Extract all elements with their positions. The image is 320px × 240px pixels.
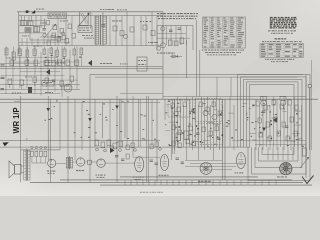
text: V7 label bbox=[96, 175, 106, 178]
wire: vertical w7 bbox=[186, 97, 188, 160]
wire: vertical w2 bbox=[171, 105, 173, 160]
paper mottle bbox=[15, 35, 320, 150]
RF section small parts bbox=[112, 21, 158, 43]
wire: vertical w37 bbox=[294, 97, 296, 147]
tube V5 rectifier bbox=[48, 159, 56, 167]
wire: vertical v17 bbox=[138, 99, 140, 147]
wire: vertical w18 bbox=[219, 99, 221, 150]
node A bbox=[43, 34, 46, 37]
wire: mixer link bbox=[30, 33, 62, 46]
wire: bottom rail 4 bbox=[100, 184, 312, 186]
wire: HT rail upper a bbox=[0, 65, 163, 67]
resistor R15 bbox=[176, 133, 181, 141]
wire: vertical w34 bbox=[283, 97, 285, 150]
wire: vertical v18 bbox=[139, 99, 141, 147]
potentiometer P1 bbox=[300, 143, 309, 178]
tube V2 EF9 bbox=[160, 155, 168, 171]
wire: vertical w8 bbox=[189, 99, 191, 147]
wire: vertical w24 bbox=[171, 99, 173, 154]
wire: bottom rail 1 bbox=[120, 176, 258, 178]
IF transformer T3 (dashed box) bbox=[198, 124, 223, 145]
text: table footnote 3 bbox=[207, 53, 236, 56]
IF can windings W1 bbox=[95, 16, 99, 44]
left margin terminal marks bbox=[1, 65, 5, 90]
wire: top rail bbox=[17, 11, 163, 13]
wire: vertical v21 bbox=[151, 99, 153, 147]
IF transformer T2 (dashed box) bbox=[195, 99, 222, 122]
wire: vertical v16 bbox=[132, 96, 134, 157]
wire: vertical w20 bbox=[222, 99, 224, 180]
components band A bbox=[5, 47, 83, 67]
wire: junction rail bbox=[19, 25, 46, 27]
wire: vertical v8 bbox=[94, 99, 96, 147]
wire: vertical w36 bbox=[290, 105, 292, 150]
wire: vertical v1 bbox=[47, 96, 49, 160]
wire: drop x127 bbox=[126, 12, 128, 70]
wire: AF links bbox=[185, 161, 246, 170]
wire: vertical v2 bbox=[49, 99, 51, 182]
wire: vertical w29 bbox=[266, 99, 268, 147]
wire: bus y102 bbox=[0, 101, 160, 103]
label box oscillator bbox=[78, 26, 92, 33]
inset rail 2 bbox=[157, 37, 190, 39]
capacitor C1b bbox=[58, 37, 61, 38]
wire: drop x141 bbox=[140, 16, 142, 46]
pointer arrow blob bbox=[3, 142, 9, 146]
bottom mid small parts bbox=[110, 146, 129, 161]
IF can circles right bbox=[261, 96, 287, 105]
text: coil chart caption 2 bbox=[271, 32, 293, 35]
text: table footnote 1 bbox=[202, 49, 244, 52]
label box aerial terminals bbox=[48, 13, 67, 18]
wiring lattice left section bbox=[1, 46, 80, 97]
text: voltages heading bbox=[275, 38, 287, 39]
text: inset caption bbox=[157, 52, 175, 55]
wire: vertical w23 bbox=[233, 105, 235, 150]
text: misc specks TL bbox=[33, 21, 128, 65]
paper shading bottom-left bbox=[0, 115, 115, 196]
wire: vertical w16 bbox=[213, 99, 215, 160]
resistor bank R10-R13 bbox=[31, 146, 47, 163]
wire: bottom rail 3 bbox=[30, 181, 303, 183]
right section components bbox=[256, 100, 298, 141]
inset frame bbox=[157, 26, 193, 51]
wire: top section bottom rail bbox=[19, 45, 163, 47]
text: top caption bbox=[100, 9, 127, 10]
wire: top drops extra bbox=[58, 16, 157, 46]
inset rail 1 bbox=[157, 33, 186, 35]
diode arrow a bbox=[46, 108, 50, 112]
wire: vertical w21 bbox=[224, 99, 226, 180]
wire: vertical w19 bbox=[222, 105, 224, 147]
diode arrow b bbox=[88, 118, 92, 122]
electrolytic blob bbox=[28, 87, 32, 93]
wire: vertical w26 bbox=[255, 99, 257, 150]
wire: feedback loop 1 bbox=[238, 74, 311, 180]
wire: double drop b bbox=[199, 50, 201, 97]
wire: output top rail bbox=[21, 149, 60, 151]
diode arrow c bbox=[115, 106, 119, 110]
text: voltages subline bbox=[262, 40, 302, 43]
resistor R14 bbox=[88, 160, 92, 164]
wire: vertical w6 bbox=[183, 105, 185, 147]
text: padder values bbox=[82, 35, 94, 39]
resistor R2 bbox=[51, 36, 55, 41]
tube V7 bbox=[97, 159, 105, 167]
wire: bus y140 bbox=[0, 140, 306, 142]
wire: vertical v12 bbox=[118, 99, 120, 147]
wire: vertical v7 bbox=[89, 74, 91, 182]
dark component dots bbox=[177, 108, 298, 145]
text: note line 2 bbox=[157, 15, 197, 18]
wire: vertical v15 bbox=[126, 70, 128, 147]
wire: left margin rail bbox=[14, 96, 21, 182]
wire: heater stubs bbox=[125, 180, 276, 185]
wire: vertical v9 bbox=[102, 102, 104, 138]
wire: eye feed drops bbox=[268, 147, 293, 160]
wire: vertical w9 bbox=[192, 97, 194, 150]
wire: HT drop bbox=[102, 12, 104, 46]
mixer diagonal & parts bbox=[19, 20, 66, 45]
capacitor C11 bbox=[155, 163, 158, 164]
wire: vertical v23 bbox=[162, 46, 164, 100]
fuse F1 blob bbox=[26, 10, 29, 13]
inset capacitor Cb bbox=[178, 28, 181, 29]
wire: gang to grid bbox=[90, 12, 92, 28]
IF can windings W2 bbox=[100, 15, 106, 45]
wire: second rail bbox=[19, 15, 163, 17]
tube V1 ECH4 bbox=[135, 157, 144, 172]
cluster above AF tubes bbox=[126, 139, 195, 151]
inset capacitor Ca bbox=[169, 30, 172, 31]
variable capacitor C2 gang bbox=[78, 12, 89, 27]
terminal node T bbox=[308, 84, 312, 88]
wire: vertical w5 bbox=[180, 99, 182, 140]
wire: vertical w11 bbox=[198, 105, 200, 160]
wire: vertical v3 bbox=[59, 102, 61, 150]
capacitor C10 bbox=[150, 160, 153, 161]
wire: vertical w3 bbox=[174, 99, 176, 150]
wire: drops from rails bbox=[22, 16, 45, 28]
wire: double drop a bbox=[196, 20, 198, 97]
text: note line 3 bbox=[158, 17, 196, 20]
magic eye EM4 shaded bbox=[280, 162, 292, 174]
wire: bus y147 bbox=[0, 146, 250, 148]
wire: feedback loop 3 bbox=[244, 79, 303, 167]
resistor R16 bbox=[184, 131, 189, 140]
table: valve data bbox=[203, 17, 246, 48]
capacitor C1 bbox=[43, 29, 46, 30]
wire: drop x152 bbox=[151, 12, 153, 46]
tube V0 triode bbox=[64, 84, 72, 92]
switch S1 arrow blob bbox=[31, 10, 35, 13]
components band C bbox=[8, 76, 74, 90]
tube V4 CY2 bbox=[237, 153, 246, 169]
text: V1 label bbox=[133, 177, 144, 180]
inset wires bbox=[162, 26, 187, 46]
wire: partial rails TL bbox=[0, 64, 60, 72]
inset tube v1 bbox=[161, 27, 165, 31]
wire: vertical w40 bbox=[305, 74, 307, 150]
wire: heater links bbox=[56, 162, 135, 163]
wire: vertical w28 bbox=[262, 97, 264, 150]
mid cluster D bbox=[95, 140, 123, 153]
text: note line 1 bbox=[157, 12, 198, 15]
wire: main bus y99 bbox=[0, 98, 318, 100]
wire: feedback loop 4 bbox=[247, 82, 299, 161]
paper shading top-right bbox=[225, 0, 320, 75]
text: voltage footnote 1 bbox=[265, 58, 294, 61]
wire: right pair down bbox=[309, 60, 311, 150]
wire: vertical w31 bbox=[273, 97, 275, 147]
wire: cathode rail bbox=[0, 89, 80, 91]
wire: vertical w22 bbox=[229, 97, 231, 147]
wire: vertical v19 bbox=[146, 96, 148, 182]
loudspeaker LS bbox=[9, 161, 24, 178]
wire: vertical w15 bbox=[210, 105, 212, 150]
capacitor C12 bbox=[176, 158, 179, 159]
wire: left frame vertical bbox=[18, 12, 20, 54]
diode D1 bbox=[170, 55, 182, 58]
wire: AVC rail bbox=[90, 73, 303, 75]
wire: vertical v13 bbox=[120, 99, 122, 147]
output transformer T4 bbox=[24, 149, 30, 182]
wire: vertical w4 bbox=[177, 97, 179, 147]
wire: screen rail bbox=[0, 84, 80, 86]
wire: section rail y42 bbox=[19, 41, 70, 43]
text: voltage footnote 2 bbox=[271, 60, 288, 63]
coil L3 hatched bbox=[34, 27, 40, 33]
table: coil chart dark block bbox=[270, 17, 297, 29]
table: voltage table bbox=[260, 44, 304, 58]
wire: inset drop long bbox=[186, 40, 188, 78]
text: bottom margin bbox=[140, 191, 163, 194]
wire: drop x217 bbox=[216, 77, 218, 97]
inset tube v2 bbox=[161, 43, 166, 48]
transformer T5 bbox=[66, 156, 72, 169]
left section labels bbox=[6, 58, 69, 94]
components band B bbox=[10, 60, 92, 75]
text: V6 label bbox=[76, 169, 84, 172]
wire: vertical v10 bbox=[109, 99, 111, 147]
wire: feedback loop 5 bbox=[250, 84, 295, 154]
wire: vertical w30 bbox=[269, 105, 271, 150]
wire: vertical v4 bbox=[67, 96, 69, 182]
capacitor C13 bbox=[181, 162, 184, 163]
IF transformer T1 (dashed box) bbox=[168, 100, 190, 117]
wire: vertical w17 bbox=[216, 97, 218, 147]
ground symbol bbox=[302, 176, 314, 184]
capacitor C3 bbox=[101, 25, 105, 27]
wire: vertical v22 bbox=[156, 99, 158, 182]
wire: vertical w35 bbox=[287, 99, 289, 147]
wire: short jogs right bbox=[166, 104, 303, 144]
wire: bias rail bbox=[0, 93, 163, 95]
wire: rail y144.7 right bbox=[255, 144, 306, 146]
wire: vertical v6 bbox=[81, 102, 83, 150]
wire: vertical w25 bbox=[174, 99, 176, 154]
text: V2 label bbox=[159, 174, 169, 177]
tube V6 bbox=[76, 158, 84, 166]
tube V3 EBL1 shaded bbox=[200, 163, 212, 175]
wire: right upper rail bbox=[163, 96, 306, 98]
wire: vertical v14 bbox=[124, 102, 126, 138]
coil L2 bbox=[28, 21, 34, 26]
text: coil chart caption 1 bbox=[268, 29, 296, 32]
wire: vertical v11 bbox=[116, 96, 118, 182]
text: coil caption bbox=[36, 8, 44, 11]
wire: AVC rail b bbox=[95, 76, 297, 78]
text: V4 label bbox=[235, 172, 244, 175]
wire: vertical w14 bbox=[207, 97, 209, 147]
wire: V1 V2 link bbox=[133, 156, 160, 158]
inset resistor Rb bbox=[174, 41, 178, 46]
text: V5 label bbox=[47, 171, 55, 174]
wire: vertical w27 bbox=[259, 105, 261, 147]
wire: vertical w39 bbox=[301, 105, 303, 147]
text: eye label bbox=[277, 176, 287, 179]
wire: HT rail upper b bbox=[0, 68, 163, 70]
wire: vertical w1 bbox=[164, 99, 166, 120]
inset resistor Rc bbox=[180, 38, 184, 44]
wire: drop x231 bbox=[230, 77, 232, 97]
wire: vertical w38 bbox=[297, 99, 299, 150]
label box Ts bbox=[137, 57, 147, 71]
wire: lower junction rail bbox=[19, 32, 46, 34]
svg-text:WR 1/P: WR 1/P bbox=[12, 107, 21, 134]
wire: vertical w12 bbox=[201, 97, 203, 147]
IF strip small components bbox=[171, 102, 221, 139]
inset resistor Ra bbox=[168, 40, 172, 46]
wire: vertical w33 bbox=[280, 105, 282, 147]
wire: vertical w10 bbox=[195, 99, 197, 147]
wire: bottom rail 2 bbox=[60, 179, 292, 181]
text: V3 label bbox=[198, 180, 211, 183]
wire: vertical v20 bbox=[148, 96, 150, 182]
resistor R1 bbox=[25, 28, 31, 33]
paper shading bottom edge bbox=[0, 178, 320, 196]
mixer section components bbox=[53, 24, 76, 43]
text: table footnote 2 bbox=[205, 51, 241, 54]
coil L1 bbox=[21, 21, 27, 26]
text: component value specks bbox=[26, 101, 304, 147]
wire: vertical v5 bbox=[74, 99, 76, 160]
inset tube v3 bbox=[157, 47, 161, 51]
wire: feedback loop 2 bbox=[241, 77, 307, 174]
wire: drop x116 bbox=[115, 16, 117, 46]
wire: vertical w32 bbox=[276, 99, 278, 150]
wire: right frame of top-left section bbox=[162, 12, 164, 46]
wire: vertical w13 bbox=[204, 99, 206, 150]
